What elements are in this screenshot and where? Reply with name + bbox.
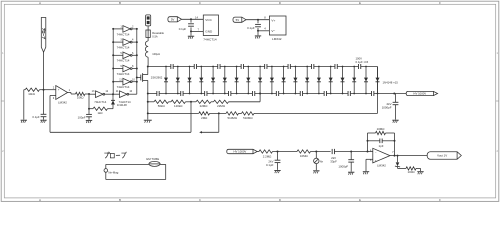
GM tube symbol <box>149 161 160 166</box>
svg-text:Resetable: Resetable <box>152 31 164 35</box>
sheet frame inner border <box>4 4 495 198</box>
svg-text:0.5A: 0.5A <box>152 35 158 39</box>
node HV filter <box>393 93 395 95</box>
svg-text:120kΩ: 120kΩ <box>174 104 183 108</box>
connector CN1 DC input <box>146 15 151 30</box>
node between gates <box>112 93 114 95</box>
frame column letters bottom <box>39 198 441 202</box>
svg-text:22MΩ: 22MΩ <box>200 104 209 108</box>
resistor R3 1kΩ <box>89 107 113 115</box>
ground NE1 <box>313 171 319 174</box>
svg-text:B: B <box>119 1 121 5</box>
capacitor C3 0.1µF decoupling <box>179 19 194 31</box>
wire divider to HV node <box>254 94 378 114</box>
svg-text:0.1µF: 0.1µF <box>247 26 255 30</box>
wire multiplier end column <box>376 67 380 95</box>
ground U2 pin5 <box>363 172 369 175</box>
label probe Japanese <box>104 152 126 158</box>
wire node to U1 pin2 <box>44 89 56 91</box>
svg-text:E: E <box>359 198 361 202</box>
resistor R11 2.2MΩ <box>257 150 272 159</box>
svg-text:A: A <box>39 1 41 5</box>
wire V- to box <box>258 30 269 32</box>
wire 5V to IC supply <box>182 18 204 20</box>
op-amp U2 LM342 output stage <box>370 148 394 167</box>
wire U2 pin5 to ground <box>366 159 373 171</box>
svg-text:F: F <box>439 198 441 202</box>
ground R14 <box>417 168 423 174</box>
fuse F1 resettable 0.5A <box>146 30 165 39</box>
wire inverter output bus <box>136 29 138 94</box>
inverter IC1E 74HCT14 (11-10) <box>113 90 137 104</box>
svg-text:100Ω: 100Ω <box>408 170 416 174</box>
svg-text:LM342: LM342 <box>272 37 282 41</box>
resistor R9 510MΩ <box>226 112 239 120</box>
ground below C2 <box>86 120 92 123</box>
svg-text:100pF: 100pF <box>78 115 86 119</box>
IC power box LM342 V+ V- <box>264 15 286 41</box>
capacitors bottom row 0.1µF x7 <box>157 91 374 96</box>
node input junction <box>43 89 45 91</box>
wire R12 to C7 <box>311 151 331 153</box>
svg-text:LM342: LM342 <box>377 164 386 168</box>
node feedback tap 1 <box>190 101 192 103</box>
svg-text:33pF: 33pF <box>330 160 337 164</box>
surge lamp NE1 <box>314 152 324 171</box>
svg-text:GND: GND <box>205 30 213 34</box>
svg-text:1kΩ: 1kΩ <box>97 111 102 115</box>
svg-text:2.2MΩ: 2.2MΩ <box>263 155 272 159</box>
resistor R2 10kΩ <box>76 92 90 99</box>
node integrator cap <box>350 151 352 153</box>
net label 5V to op-amp supply <box>233 17 246 22</box>
node surge arrester <box>315 151 317 153</box>
diode D1 1N4148 pulse <box>111 94 127 109</box>
ground op-amp supply <box>255 31 261 39</box>
frame column letters top <box>39 1 441 5</box>
inverter buffer 74HCT14 #1 (pins 1-2) <box>112 26 138 37</box>
svg-text:74HCT14: 74HCT14 <box>94 100 106 104</box>
resistor R10 510MΩ <box>239 112 255 120</box>
wire U2 output <box>390 155 428 157</box>
ground C8 <box>348 172 354 175</box>
svg-text:0.1µF ×15: 0.1µF ×15 <box>356 60 369 64</box>
node RC tap <box>88 108 90 110</box>
inverter buffer 74HCT14 #5 (pins 11-10) <box>112 78 138 89</box>
wire feedback tap1 to op-amp <box>50 102 191 133</box>
resistor R5 120kΩ <box>169 100 186 108</box>
wire chain to U2 pin6 <box>368 151 373 153</box>
wire HV output rail <box>378 93 407 95</box>
inverter buffer 74HCT14 #2 (pins 3-4) <box>112 39 138 50</box>
ground C6 <box>274 171 280 174</box>
svg-text:10MΩ: 10MΩ <box>377 127 386 131</box>
wire U1 pin3 from feedback line <box>50 96 56 133</box>
label GM TUBE <box>146 157 159 161</box>
ground below C1 <box>40 120 46 123</box>
op-amp U1 LM342 first stage <box>53 86 71 105</box>
wire inverter input bus <box>112 29 114 94</box>
svg-text:F: F <box>439 1 441 5</box>
svg-text:A: A <box>39 198 41 202</box>
svg-text:LM342: LM342 <box>58 100 67 104</box>
svg-text:0.1µF: 0.1µF <box>266 163 274 167</box>
node feedback tap 2 <box>218 112 220 114</box>
capacitors top row 0.1µF x8 <box>171 64 361 69</box>
diodes D2-D19 1N4148 rectifier columns <box>164 66 368 95</box>
wire multiplier bottom rail <box>148 93 378 95</box>
node op-amp V- junction <box>257 30 259 32</box>
ground main boost <box>144 93 152 123</box>
resistor R7 22MΩ <box>211 100 229 108</box>
capacitor C2 100pF <box>78 94 92 120</box>
net label HV 1000V output <box>406 91 437 95</box>
label multiplier diodes <box>383 80 399 84</box>
svg-text:2MΩ: 2MΩ <box>201 116 208 120</box>
wire pin7 to box <box>191 30 203 32</box>
capacitor C1 0.1µF <box>32 90 46 120</box>
wire U1 output <box>68 93 76 95</box>
svg-text:100µH: 100µH <box>152 52 160 56</box>
svg-text:5V: 5V <box>171 17 175 21</box>
inverter buffer 74HCT14 #4 (pins 9-8) <box>112 65 138 76</box>
svg-text:5V: 5V <box>236 18 240 22</box>
svg-text:74HCT14: 74HCT14 <box>117 72 130 76</box>
resistor R8 2MΩ divider <box>148 112 210 120</box>
node filter cap <box>277 151 279 153</box>
svg-text:0.1µF: 0.1µF <box>179 27 187 31</box>
svg-text:Ne-Mag: Ne-Mag <box>108 171 118 175</box>
net label HV 1000V input <box>227 149 257 153</box>
resistor R12 10MΩ <box>297 150 311 158</box>
net label PROBE (vertical arrow to GM tube input) <box>41 18 46 53</box>
svg-text:Vout 1V: Vout 1V <box>437 154 447 158</box>
wire probe to input node <box>43 52 45 89</box>
net label 5V to logic supply <box>168 17 182 22</box>
wire R5 to tap <box>186 101 197 103</box>
resistor R14 100Ω <box>398 167 421 174</box>
zener diode ZD1 RD9.1E <box>395 155 400 169</box>
capacitor C8 1000pF <box>338 152 354 172</box>
ground below R1 <box>21 120 27 123</box>
wire 5V to op-amp V+ <box>246 19 269 21</box>
svg-text:74HCT14: 74HCT14 <box>119 100 131 104</box>
svg-text:1N4148 ×15: 1N4148 ×15 <box>383 80 399 84</box>
node oscillator input <box>88 93 90 95</box>
wire R11 to R12 <box>273 151 298 153</box>
node op-amp supply cap <box>257 19 259 21</box>
svg-text:GM TUBE: GM TUBE <box>146 157 159 161</box>
svg-text:HV 1000V: HV 1000V <box>234 150 247 154</box>
ground supply C3 <box>188 31 194 38</box>
svg-text:VCC: VCC <box>205 18 212 22</box>
probe cable loop <box>106 164 166 179</box>
svg-text:1000pF: 1000pF <box>382 106 392 110</box>
svg-text:2SK2962: 2SK2962 <box>151 76 163 80</box>
svg-text:510MΩ: 510MΩ <box>227 116 237 120</box>
node boost drain <box>147 66 149 68</box>
capacitor C5 2kV 1000pF filter <box>382 94 399 120</box>
wire R8 to tap2 <box>210 112 226 114</box>
capacitor C6 2kV 0.1µF <box>266 152 280 170</box>
node output feedback <box>394 155 396 157</box>
inductor L1 100µH <box>145 37 160 66</box>
svg-text:74HCT14: 74HCT14 <box>117 59 130 63</box>
resistor R6 22MΩ <box>196 100 211 108</box>
capacitor C9 1pF feedback <box>367 139 396 149</box>
svg-text:74HCT14: 74HCT14 <box>203 37 217 41</box>
resistor R4 56kΩ <box>148 100 169 108</box>
svg-text:22MΩ: 22MΩ <box>217 104 226 108</box>
ground HV filter <box>392 120 398 123</box>
wire multiplier top rail <box>148 66 378 68</box>
svg-text:V−: V− <box>271 29 275 33</box>
capacitor C4 0.1µF decoupling <box>247 20 261 31</box>
frame row numbers <box>2 51 498 153</box>
svg-text:74HCT14: 74HCT14 <box>117 85 130 89</box>
node supply gnd pin7 <box>190 30 192 32</box>
svg-text:V+: V+ <box>271 19 275 23</box>
frame row ticks <box>1 100 499 102</box>
net label Vout 1V <box>427 152 461 160</box>
wire feedback tap2 with arrow <box>199 113 219 133</box>
svg-text:10kΩ: 10kΩ <box>77 96 84 100</box>
wire R1 to ground <box>23 90 25 120</box>
svg-text:10kΩ: 10kΩ <box>28 92 35 96</box>
svg-text:1000pF: 1000pF <box>338 165 348 169</box>
IC power box 74HCT14 VCC GND <box>195 15 218 41</box>
svg-text:HV 1000V: HV 1000V <box>413 92 426 96</box>
resistor R1 10kΩ <box>24 88 44 96</box>
svg-text:510MΩ: 510MΩ <box>243 116 253 120</box>
svg-text:E: E <box>359 1 361 5</box>
resistor R13 10MΩ feedback <box>368 127 395 155</box>
wire R7 to bottom rail <box>229 93 262 102</box>
svg-text:B: B <box>119 198 121 202</box>
svg-text:10MΩ: 10MΩ <box>300 154 309 158</box>
svg-text:74HCT14: 74HCT14 <box>117 46 130 50</box>
probe connector circle <box>104 169 119 175</box>
svg-text:74HCT14: 74HCT14 <box>117 32 130 36</box>
node supply C3 <box>190 18 192 20</box>
svg-text:1pF: 1pF <box>379 144 384 148</box>
inverter buffer 74HCT14 #3 (pins 5-6) <box>112 52 138 63</box>
inverter IC1F 74HCT14 (13-12) <box>89 90 113 104</box>
capacitor C7 2kV 33pF coupling <box>330 149 367 164</box>
svg-text:56kΩ: 56kΩ <box>158 104 166 108</box>
node feedback join <box>367 151 369 153</box>
svg-text:0.1µF: 0.1µF <box>32 115 39 119</box>
transistor Q1 2SK2962 N-MOSFET <box>136 67 163 94</box>
label multiplier capacitors <box>356 57 369 65</box>
